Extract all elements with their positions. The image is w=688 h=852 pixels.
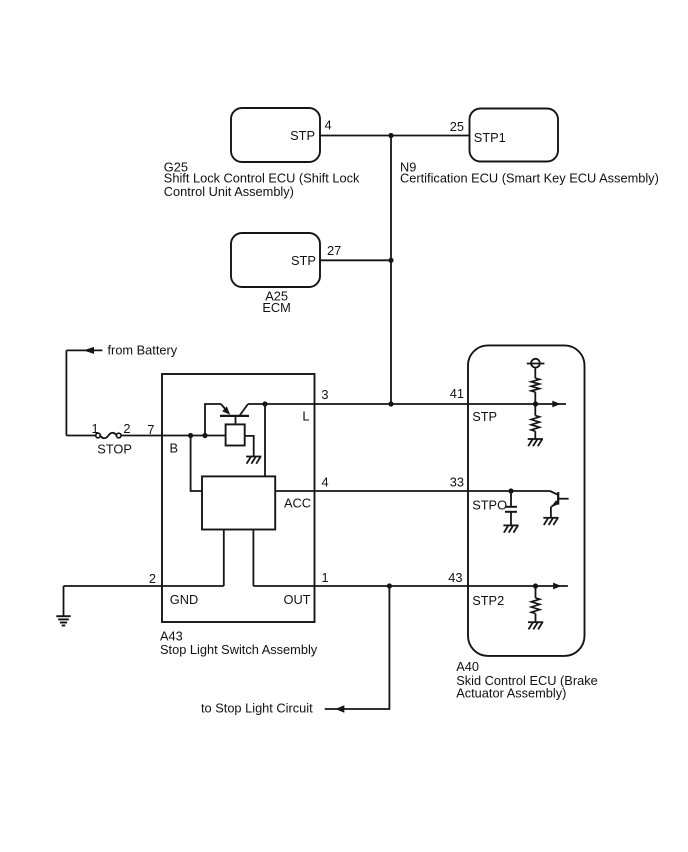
svg-text:B: B [170,441,179,456]
connector block STP1 (N9) [470,109,559,162]
wire fuse to A43 pin7 [121,435,162,437]
svg-text:33: 33 [450,474,464,489]
node STPO [508,488,513,493]
chassis ground (below R2) [528,439,543,446]
wire to fuse [66,435,95,437]
power feed symbol [527,359,545,378]
wire pin4 G25 to bus [320,135,391,137]
fuse STOP [96,433,121,438]
node bus-pin27 [388,258,393,263]
svg-text:from Battery: from Battery [108,343,178,358]
wire resistor box to ground [245,436,254,457]
wire earth drop [63,586,65,616]
svg-text:1: 1 [322,570,329,585]
wire inner box right leg [252,530,254,587]
arrowhead pin43 [553,583,561,590]
svg-text:Certification ECU (Smart Key E: Certification ECU (Smart Key ECU Assembl… [400,171,659,186]
svg-text:OUT: OUT [283,592,310,607]
svg-text:3: 3 [321,387,328,402]
svg-text:STP: STP [291,253,316,268]
chassis ground (below R3) [528,622,543,629]
wire collector drop to inner box [264,404,266,476]
wire L / pin3 / pin41 line [248,403,536,405]
wire ACC pin4 pin33 line [275,490,550,492]
capacitor C1 plates [505,507,517,512]
svg-text:GND: GND [170,592,198,607]
svg-text:25: 25 [450,119,464,134]
svg-text:STP1: STP1 [474,130,506,145]
svg-text:to Stop Light Circuit: to Stop Light Circuit [201,701,313,716]
svg-text:Actuator Assembly): Actuator Assembly) [456,686,566,701]
switch assembly box A43 [162,374,315,622]
arrowhead to Stop Light Circuit [335,705,344,713]
wire transistor emitter slant [221,404,229,413]
svg-text:ECM: ECM [262,300,290,315]
node collector [262,401,267,406]
wire OUT pin1 pin43 line [253,585,535,587]
node STP2 [533,583,538,588]
wire arrow tail pin41 [536,403,567,405]
wire node drop to inner box [191,436,202,492]
svg-text:L: L [302,408,309,423]
node OUT branch [387,583,392,588]
transistor Q1 emitter arrowhead [222,406,230,414]
ECU block A40 [468,345,585,656]
resistor R1 (pull-up) [531,378,539,392]
wire B inside A43 [162,435,226,437]
resistor R3 [531,598,539,614]
wire node riser to emitter [205,404,221,436]
chassis ground (below Q2) [543,518,558,525]
svg-text:7: 7 [147,422,154,437]
svg-text:STP: STP [290,128,315,143]
svg-text:STOP: STOP [97,441,132,456]
svg-text:27: 27 [327,243,341,258]
node B1 [188,433,193,438]
svg-text:1: 1 [91,421,98,436]
wire pin27 A25 to bus [320,259,391,261]
connector block A25 [231,233,320,287]
wire R2 to ground [534,431,536,439]
chassis ground (below C1) [503,525,518,532]
svg-text:STP: STP [472,409,497,424]
svg-text:4: 4 [325,117,332,132]
wire inner box left leg [223,530,225,587]
node STP divider [533,401,538,406]
wire R1 to node [534,392,536,404]
wire GND pin2 to earth [64,585,224,587]
wire node to R2 [534,404,536,416]
svg-text:43: 43 [448,570,462,585]
transistor Q2 (STPO) [550,491,569,518]
wire base bar of transistor Q1 [220,415,249,417]
arrowhead from Battery [83,347,94,354]
earth ground [56,616,70,625]
transistor Q2 emitter arrowhead [551,500,559,507]
wire from Battery horizontal [66,349,102,351]
wire bus to pin25 STP1 [391,135,470,137]
wire vertical bus [390,136,392,405]
chassis ground (resistor box) [246,457,261,464]
arrowhead pin41 [552,401,560,408]
svg-text:Control Unit Assembly): Control Unit Assembly) [164,184,294,199]
wire branch to stop light circuit [325,586,390,709]
node B2 [202,433,207,438]
wire R3 to ground [535,614,537,623]
capacitor C1 lower lead [510,512,512,526]
resistor R2 (pull-down) [531,416,539,432]
svg-text:Stop Light Switch Assembly: Stop Light Switch Assembly [160,642,318,657]
wire arrow tail pin43 [536,585,568,587]
resistor R3 (STP2) lead [535,586,537,598]
svg-text:4: 4 [322,474,329,489]
wire transistor collector slant [239,404,248,416]
connector block G25 [231,108,320,162]
wire from Battery vertical [65,350,67,435]
base resistor box [226,424,245,445]
capacitor C1 lead [510,491,512,506]
svg-text:2: 2 [123,421,130,436]
inner circuit box (switch unit) [202,476,275,529]
svg-text:ACC: ACC [284,496,311,511]
wire base drop to resistor box [235,416,237,425]
svg-text:STPO: STPO [472,498,507,513]
svg-text:STP2: STP2 [472,593,504,608]
node bus-L line [388,401,393,406]
svg-text:2: 2 [149,571,156,586]
node bus-pin4 [388,133,393,138]
svg-text:41: 41 [450,386,464,401]
